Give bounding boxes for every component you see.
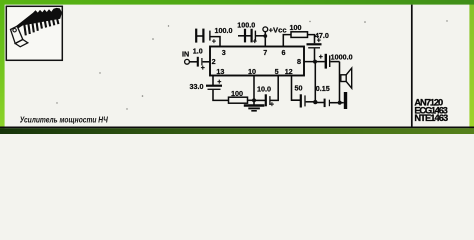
+Vcc terminal	[263, 27, 268, 32]
svg-text:7: 7	[263, 48, 267, 57]
svg-text:100.0: 100.0	[215, 26, 233, 35]
junction dot ground node	[252, 98, 256, 102]
svg-text:0.15: 0.15	[316, 84, 330, 93]
resistor R1 100 top	[291, 32, 308, 38]
svg-text:100.0: 100.0	[237, 21, 255, 30]
capacitor C4 1000.0	[325, 54, 327, 69]
pin 13 wire	[212, 76, 214, 86]
svg-text:+Vcc: +Vcc	[269, 25, 287, 34]
svg-text:3: 3	[222, 48, 226, 57]
svg-text:+: +	[270, 101, 274, 108]
svg-text:2: 2	[212, 57, 216, 66]
junction dot bottom node	[313, 100, 317, 104]
svg-text:12: 12	[285, 67, 293, 76]
capacitor C6 10.0	[254, 99, 265, 101]
svg-text:+: +	[217, 79, 221, 86]
capacitor C8 0.15	[315, 102, 324, 104]
svg-text:IN: IN	[182, 50, 189, 59]
schematic labels	[182, 21, 353, 109]
pin 10 wire	[253, 76, 255, 105]
svg-text:8: 8	[297, 57, 301, 66]
svg-text:+: +	[253, 38, 257, 45]
pin 3 wire	[211, 37, 221, 47]
svg-text:100: 100	[231, 89, 243, 98]
capacitor C5 33.0 vertical	[206, 85, 222, 87]
green border bottom	[0, 128, 474, 134]
capacitor C-in 1.0 leads	[189, 61, 197, 63]
notch	[13, 29, 16, 32]
svg-text:10.0: 10.0	[257, 84, 271, 93]
pin 8 wire	[304, 61, 325, 63]
junction dot Vcc node	[263, 34, 267, 38]
svg-text:10: 10	[248, 67, 256, 76]
vertical divider line	[411, 5, 413, 127]
page background	[0, 0, 474, 134]
capacitor C7 50	[300, 94, 302, 107]
bottom face	[15, 40, 28, 47]
bottom black rule	[0, 127, 474, 129]
svg-text:33.0: 33.0	[190, 82, 204, 91]
input terminal IN	[185, 59, 190, 64]
white end face with notch	[11, 26, 23, 43]
capacitor C-in 1.0 plates	[197, 57, 199, 67]
svg-text:50: 50	[295, 84, 303, 93]
green border top	[0, 0, 474, 5]
scan specks	[56, 20, 447, 109]
svg-text:+: +	[212, 38, 216, 45]
plus marks	[201, 38, 323, 109]
capacitor C2 100.0	[238, 35, 245, 37]
capacitor C1 100.0	[195, 29, 197, 43]
svg-text:1000.0: 1000.0	[331, 53, 353, 62]
resistor R2 100 bottom	[229, 97, 248, 103]
svg-text:5: 5	[275, 67, 279, 76]
svg-text:+: +	[201, 65, 205, 72]
svg-text:+: +	[319, 54, 323, 61]
speaker LS1	[341, 75, 346, 82]
part numbers	[414, 98, 448, 123]
pin 12 wire	[292, 76, 301, 101]
IC package photo box	[6, 6, 62, 60]
wire down to speaker	[339, 62, 341, 103]
body slab with pin teeth	[13, 8, 62, 31]
svg-text:13: 13	[216, 67, 224, 76]
svg-text:100: 100	[290, 23, 302, 32]
IC package drawing (DIP in perspective)	[11, 8, 63, 47]
green border right	[469, 0, 474, 134]
svg-text:+: +	[317, 38, 321, 45]
wire pin8 node down to bottom node	[314, 62, 316, 103]
capacitor C3 47.0 vertical	[307, 43, 322, 45]
green border left	[0, 0, 5, 134]
svg-text:NTE1463: NTE1463	[414, 113, 448, 123]
IC U1 box	[210, 47, 304, 76]
svg-text:1.0: 1.0	[193, 47, 203, 56]
ground	[244, 104, 265, 106]
pin 7 wire	[264, 32, 266, 47]
terminal bar	[340, 102, 344, 104]
svg-text:6: 6	[282, 48, 286, 57]
junction pin8	[313, 60, 317, 64]
junction dot speaker node	[338, 101, 342, 105]
svg-text:Усилитель мощности НЧ: Усилитель мощности НЧ	[20, 114, 109, 124]
